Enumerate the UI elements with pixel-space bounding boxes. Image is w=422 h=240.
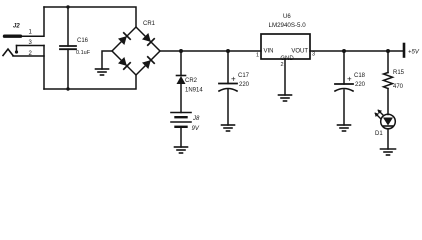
wire LED to ground (387, 129, 389, 149)
wire battery to ground (180, 127, 182, 147)
ground (U6) (279, 95, 292, 101)
resistor R15 (384, 70, 405, 90)
svg-text:9V: 9V (192, 126, 200, 132)
wire C18 to ground (343, 90, 345, 125)
wire C17 to ground (227, 90, 229, 126)
svg-text:+: + (347, 75, 352, 84)
connector J2 (3, 24, 21, 56)
wire pin1 to top rail (20, 7, 44, 36)
wire GND pin to ground (284, 59, 286, 95)
svg-text:2: 2 (281, 62, 284, 68)
wire top rail (44, 7, 136, 27)
wire pin2 (13, 55, 44, 57)
svg-text:VOUT: VOUT (291, 49, 308, 55)
svg-text:CR1: CR1 (143, 21, 156, 27)
wire output rail (VOUT to +5V) (310, 50, 404, 52)
svg-text:J2: J2 (13, 24, 20, 30)
svg-text:R15: R15 (393, 70, 405, 76)
svg-text:D1: D1 (375, 131, 383, 137)
svg-text:LM2940S-5.0: LM2940S-5.0 (269, 22, 307, 29)
wire left vertical to bottom rail (43, 46, 45, 90)
ground (battery) (175, 147, 188, 153)
ground (C17) (222, 125, 235, 131)
regulator U6 (261, 14, 310, 62)
svg-text:J8: J8 (192, 116, 200, 122)
wire rail to C17 (227, 51, 229, 84)
diode CR1 top-left (118, 33, 130, 45)
junction C18 tap (342, 49, 346, 53)
diode CR2 (177, 76, 204, 94)
ground (bridge negative) (96, 69, 109, 75)
svg-text:0.1uF: 0.1uF (76, 50, 91, 56)
power terminal +5V (404, 44, 420, 57)
bridge rectifier CR1 (112, 21, 160, 75)
ground (D1) (381, 149, 396, 155)
ground (C18) (338, 125, 351, 131)
diode CR1 bottom-left (118, 57, 130, 69)
wire positive rail (bridge to VIN) (160, 50, 261, 52)
svg-text:C16: C16 (77, 38, 89, 44)
diode CR1 top-right (142, 33, 154, 45)
LED D1 (375, 110, 396, 138)
capacitor C16 (60, 7, 91, 89)
svg-text:C18: C18 (354, 73, 366, 79)
junction C17 tap (226, 49, 230, 53)
wire bottom rail (44, 75, 136, 89)
junction CR2 tap (179, 49, 183, 53)
wire bridge negative to ground (102, 51, 112, 69)
svg-text:220: 220 (355, 82, 366, 88)
capacitor C17 (219, 73, 250, 91)
svg-text:220: 220 (239, 82, 250, 88)
junction C16 top (66, 5, 69, 8)
svg-text:U6: U6 (283, 14, 291, 20)
svg-text:+: + (231, 75, 236, 84)
junction C16 bottom (66, 87, 69, 90)
svg-text:1: 1 (29, 30, 33, 36)
wire pin3 (17, 45, 45, 47)
svg-text:C17: C17 (238, 73, 250, 79)
svg-text:3: 3 (312, 52, 315, 58)
svg-text:1: 1 (256, 53, 259, 59)
svg-text:+5V: +5V (408, 50, 420, 56)
wire rail to R15 (387, 51, 389, 73)
svg-text:VIN: VIN (264, 49, 274, 55)
diode CR1 bottom-right (142, 57, 154, 69)
svg-text:CR2: CR2 (185, 78, 198, 84)
junction R15 tap (386, 49, 390, 53)
wire rail to C18 (343, 51, 345, 84)
svg-text:1N914: 1N914 (185, 88, 203, 94)
wire rail to CR2 (180, 51, 182, 76)
wire R15 to LED (387, 89, 389, 115)
battery J8 (171, 113, 200, 133)
svg-text:470: 470 (393, 84, 404, 90)
wire CR2 to battery (180, 84, 182, 113)
capacitor C18 (335, 73, 366, 91)
